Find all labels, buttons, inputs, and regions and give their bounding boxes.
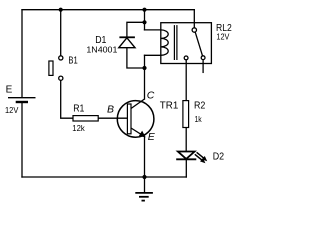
svg-text:12V: 12V bbox=[216, 33, 230, 42]
relay switch bbox=[192, 28, 196, 32]
wire NO contact dead end bbox=[202, 60, 204, 73]
wire diode top stub bbox=[127, 22, 145, 37]
svg-text:R2: R2 bbox=[194, 101, 206, 112]
push button B1 bbox=[49, 56, 63, 80]
transistor TR1 bbox=[117, 99, 154, 137]
battery E bbox=[8, 98, 36, 102]
wire R1 to base bbox=[98, 117, 127, 119]
svg-text:E: E bbox=[6, 84, 13, 95]
wire left vertical to battery bbox=[21, 10, 23, 97]
diode D1 bbox=[119, 37, 135, 47]
node rail-button junction bbox=[59, 8, 63, 12]
svg-text:1k: 1k bbox=[195, 114, 203, 124]
svg-text:R1: R1 bbox=[73, 104, 85, 115]
resistor R1 bbox=[73, 116, 98, 121]
ground bbox=[135, 177, 153, 201]
wire coil feed vertical from rail bbox=[144, 10, 146, 30]
wire diode bottom stub bbox=[127, 48, 145, 68]
svg-text:D2: D2 bbox=[213, 152, 225, 163]
wire coil bottom to collector bbox=[145, 54, 161, 56]
svg-text:C: C bbox=[147, 89, 155, 101]
wire battery negative to bottom rail bbox=[21, 102, 23, 177]
svg-text:1N4001: 1N4001 bbox=[86, 46, 118, 55]
svg-text:12k: 12k bbox=[72, 123, 85, 133]
wire emitter vertical bbox=[144, 136, 146, 177]
svg-text:D1: D1 bbox=[95, 34, 106, 46]
wire R2 to LED bbox=[185, 128, 187, 152]
node diode top junction bbox=[142, 20, 146, 24]
wire collector net vertical bbox=[144, 55, 146, 99]
wire top rail bbox=[22, 9, 194, 11]
svg-text:TR1: TR1 bbox=[160, 100, 179, 111]
LED arrow 2 bbox=[195, 154, 203, 160]
node junction dots bbox=[59, 8, 147, 179]
svg-text:B: B bbox=[107, 103, 114, 115]
svg-text:B1: B1 bbox=[68, 54, 77, 66]
node diode bottom junction bbox=[142, 66, 146, 70]
node emitter-ground junction bbox=[142, 175, 146, 179]
wire coil feed horizontal into relay bbox=[145, 29, 161, 31]
relay core lines bbox=[173, 25, 175, 60]
wire button to R1 bbox=[61, 80, 73, 118]
wire pole contact to R2 bbox=[185, 60, 187, 101]
node rail-coil junction bbox=[142, 8, 146, 12]
LED arrow 1 bbox=[197, 152, 205, 158]
svg-text:E: E bbox=[148, 131, 156, 143]
wire bottom rail bbox=[22, 176, 186, 178]
wire switch common from rail bbox=[193, 10, 195, 28]
LED D2 bbox=[176, 152, 207, 164]
relay RL2 bbox=[161, 23, 212, 64]
wire button branch from rail bbox=[60, 10, 62, 56]
svg-text:12V: 12V bbox=[5, 106, 19, 115]
relay coil bbox=[161, 30, 168, 55]
wire LED cathode to bottom rail bbox=[185, 159, 187, 177]
resistor R2 bbox=[183, 101, 189, 128]
